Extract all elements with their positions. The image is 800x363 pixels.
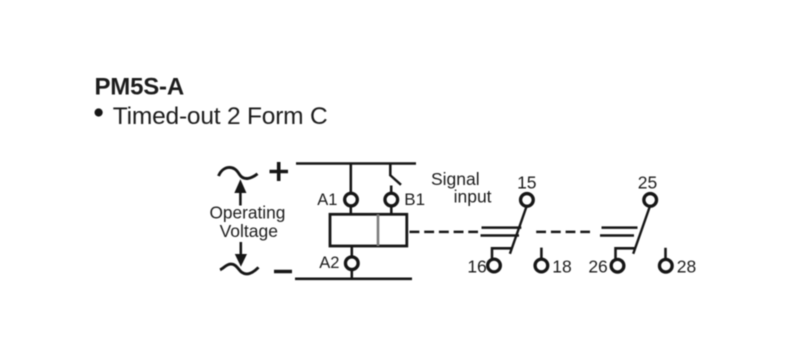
wire bottom supply rail (295, 278, 412, 281)
arrow down (operating voltage) (240, 242, 243, 255)
wire coil to A2 (351, 246, 354, 257)
wire A2 to bottom rail (351, 270, 354, 279)
svg-text:28: 28 (677, 257, 696, 277)
terminal A2 (345, 257, 358, 270)
svg-text:Voltage: Voltage (220, 221, 278, 241)
terminal 28 (659, 259, 672, 272)
contact 2 wire to 28 (664, 248, 667, 259)
coil box divider (377, 214, 380, 246)
contact 1 wire to 18 (540, 248, 543, 259)
contact 1 wire to 16 (492, 248, 511, 258)
svg-text:26: 26 (588, 257, 607, 277)
svg-text:18: 18 (552, 257, 571, 277)
contact 2 wire to 26 (616, 248, 635, 258)
terminal 18 (535, 259, 548, 272)
svg-text:15: 15 (517, 172, 536, 192)
contact 2 lever (633, 207, 650, 254)
wire B1 to coil (390, 207, 393, 215)
signal switch stub from rail (389, 164, 392, 177)
svg-text:16: 16 (467, 257, 486, 277)
contact 2 timed bars (600, 228, 638, 236)
terminal A1 (345, 193, 358, 206)
plus polarity mark (270, 162, 289, 181)
contact 2 terminal 25 (644, 194, 657, 207)
wire switch to B1 (390, 186, 393, 193)
svg-text:Timed-out 2 Form C: Timed-out 2 Form C (113, 103, 328, 130)
minus polarity mark (274, 270, 292, 274)
svg-text:Operating: Operating (209, 203, 285, 223)
arrow down head (236, 255, 247, 266)
svg-text:input: input (454, 186, 492, 206)
wire top supply rail (296, 162, 416, 165)
wire A1 to coil (350, 207, 353, 215)
relay coil box (330, 214, 407, 246)
terminal B1 (385, 193, 398, 206)
contact 1 terminal 15 (521, 194, 534, 207)
mechanical linkage dashed line segment 2 (536, 231, 590, 234)
svg-text:A2: A2 (319, 254, 339, 272)
svg-text:PM5S-A: PM5S-A (95, 74, 184, 101)
subtitle bullet (95, 108, 103, 116)
AC symbol top tilde (219, 167, 258, 178)
signal switch lever (390, 175, 401, 185)
arrow up head (235, 181, 246, 193)
arrow up (operating voltage) (239, 192, 242, 206)
contact 1 timed bars (481, 228, 522, 236)
terminal 16 (488, 259, 501, 272)
svg-text:A1: A1 (317, 191, 337, 209)
svg-text:25: 25 (638, 172, 657, 192)
svg-text:B1: B1 (404, 190, 425, 209)
mechanical linkage dashed line (410, 231, 479, 234)
wire top rail to A1 (350, 164, 353, 193)
terminal 26 (611, 259, 624, 272)
contact 1 lever (510, 207, 527, 254)
AC symbol bottom tilde (220, 264, 259, 274)
